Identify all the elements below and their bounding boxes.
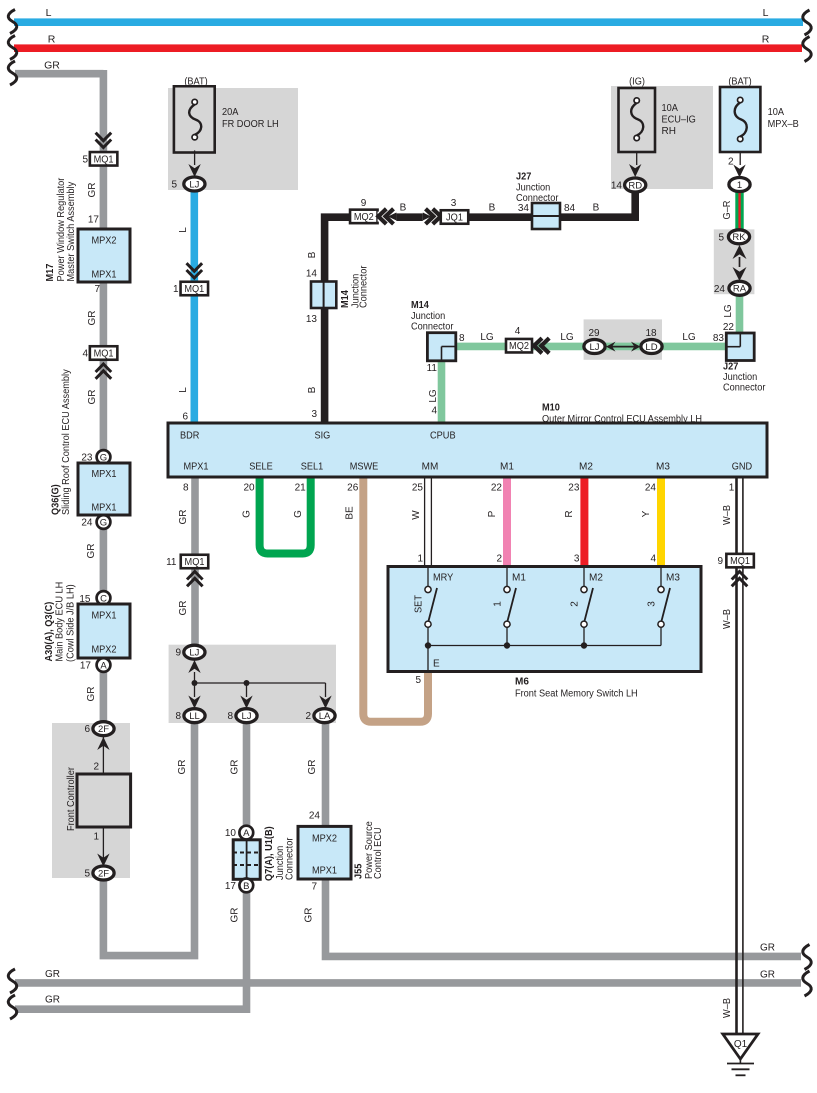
svg-text:7: 7	[94, 284, 100, 295]
svg-text:R: R	[762, 34, 770, 46]
svg-text:25: 25	[412, 483, 424, 494]
svg-text:2: 2	[728, 157, 734, 168]
svg-text:Master Switch Assembly: Master Switch Assembly	[66, 182, 77, 282]
svg-text:1: 1	[737, 180, 742, 191]
svg-text:MPX1: MPX1	[91, 469, 117, 480]
svg-text:Connector: Connector	[359, 265, 370, 308]
svg-text:Front Controller: Front Controller	[66, 766, 77, 831]
svg-text:LD: LD	[645, 342, 657, 353]
svg-text:E: E	[433, 659, 440, 670]
svg-text:GR: GR	[760, 970, 775, 981]
svg-text:W–B: W–B	[722, 505, 733, 525]
svg-text:MQ1: MQ1	[94, 154, 114, 165]
svg-text:1: 1	[493, 601, 504, 607]
svg-text:9: 9	[361, 198, 367, 209]
svg-text:A30(A), Q3(C): A30(A), Q3(C)	[44, 602, 55, 662]
svg-text:17: 17	[80, 661, 92, 672]
svg-text:Outer Mirror Control ECU Assem: Outer Mirror Control ECU Assembly LH	[542, 414, 702, 425]
svg-text:M3: M3	[666, 573, 680, 584]
svg-text:1: 1	[729, 483, 735, 494]
svg-text:SET: SET	[414, 595, 425, 613]
svg-text:24: 24	[309, 811, 321, 822]
svg-text:G: G	[242, 510, 253, 518]
svg-text:SEL1: SEL1	[301, 462, 324, 473]
svg-text:2F: 2F	[98, 724, 109, 735]
svg-text:2: 2	[93, 762, 99, 773]
svg-text:GR: GR	[87, 390, 98, 405]
svg-text:W–B: W–B	[722, 609, 733, 629]
svg-text:10A: 10A	[662, 103, 679, 114]
svg-text:B: B	[593, 203, 600, 214]
svg-text:MQ2: MQ2	[354, 212, 374, 223]
svg-text:Y: Y	[641, 510, 652, 517]
svg-text:7: 7	[311, 882, 317, 893]
svg-text:3: 3	[311, 409, 317, 420]
svg-text:2: 2	[570, 601, 581, 607]
svg-text:J27: J27	[723, 362, 739, 373]
svg-text:8: 8	[175, 711, 181, 722]
svg-text:GR: GR	[178, 601, 189, 616]
svg-text:22: 22	[723, 322, 735, 333]
svg-text:RK: RK	[732, 232, 746, 243]
svg-text:LJ: LJ	[241, 711, 251, 722]
svg-text:G: G	[293, 510, 304, 518]
svg-text:3: 3	[647, 601, 658, 607]
svg-text:M10: M10	[542, 403, 560, 414]
svg-text:5: 5	[415, 675, 421, 686]
svg-text:M3: M3	[656, 462, 670, 473]
svg-text:A: A	[100, 660, 107, 671]
svg-text:LJ: LJ	[189, 179, 199, 190]
svg-text:3: 3	[574, 554, 580, 565]
svg-text:JQ1: JQ1	[446, 213, 463, 224]
svg-text:9: 9	[717, 556, 723, 567]
svg-text:8: 8	[183, 483, 189, 494]
svg-text:RA: RA	[733, 284, 747, 295]
svg-text:GR: GR	[177, 760, 188, 775]
svg-text:J55: J55	[354, 863, 365, 879]
svg-text:GR: GR	[45, 969, 60, 980]
svg-text:LG: LG	[480, 332, 494, 343]
svg-text:G–R: G–R	[722, 201, 733, 220]
svg-text:MQ1: MQ1	[184, 284, 204, 295]
svg-text:LG: LG	[428, 389, 439, 403]
svg-text:11: 11	[166, 557, 177, 568]
svg-text:MPX–B: MPX–B	[768, 119, 799, 130]
svg-text:29: 29	[588, 328, 600, 339]
svg-text:Connector: Connector	[516, 193, 559, 204]
svg-text:LG: LG	[723, 304, 734, 318]
svg-text:B: B	[307, 251, 318, 258]
svg-text:9: 9	[175, 648, 181, 659]
svg-text:3: 3	[451, 198, 457, 209]
svg-text:GR: GR	[307, 760, 318, 775]
svg-text:Connector: Connector	[411, 322, 454, 333]
svg-text:GR: GR	[87, 183, 98, 198]
svg-text:Connector: Connector	[285, 837, 296, 880]
svg-text:M14: M14	[411, 300, 429, 311]
svg-text:1: 1	[173, 284, 179, 295]
svg-text:84: 84	[564, 203, 576, 214]
svg-text:MQ1: MQ1	[94, 349, 114, 360]
svg-text:14: 14	[306, 269, 318, 280]
svg-text:8: 8	[227, 711, 233, 722]
svg-text:GR: GR	[45, 995, 60, 1006]
svg-text:GR: GR	[87, 311, 98, 326]
svg-text:4: 4	[82, 349, 88, 360]
svg-text:MPX2: MPX2	[91, 645, 117, 656]
svg-text:5: 5	[718, 232, 724, 243]
svg-text:GND: GND	[732, 462, 752, 473]
svg-text:LG: LG	[682, 332, 696, 343]
svg-text:LL: LL	[189, 711, 200, 722]
svg-text:22: 22	[491, 483, 503, 494]
svg-text:B: B	[307, 386, 318, 393]
svg-text:5: 5	[171, 180, 177, 191]
svg-text:GR: GR	[86, 544, 97, 559]
svg-text:A: A	[243, 828, 250, 839]
svg-text:14: 14	[611, 181, 623, 192]
svg-text:Front Seat Memory Switch LH: Front Seat Memory Switch LH	[515, 689, 638, 700]
svg-text:GR: GR	[304, 908, 315, 923]
svg-text:4: 4	[650, 554, 656, 565]
svg-text:MM: MM	[422, 462, 439, 473]
svg-text:MRY: MRY	[433, 573, 454, 584]
svg-text:G: G	[100, 517, 107, 528]
svg-text:SIG: SIG	[315, 431, 331, 442]
svg-text:(IG): (IG)	[629, 77, 645, 88]
svg-text:M2: M2	[579, 462, 593, 473]
svg-text:MQ2: MQ2	[509, 341, 529, 352]
svg-text:MSWE: MSWE	[350, 462, 379, 473]
svg-text:13: 13	[306, 314, 318, 325]
svg-text:B: B	[400, 203, 407, 214]
svg-text:8: 8	[459, 333, 465, 344]
svg-text:GR: GR	[760, 943, 775, 954]
svg-text:(BAT): (BAT)	[184, 77, 207, 88]
svg-text:M2: M2	[589, 573, 603, 584]
svg-text:Junction: Junction	[411, 311, 445, 322]
svg-text:MPX1: MPX1	[312, 866, 338, 877]
svg-text:L: L	[763, 7, 769, 19]
svg-text:5: 5	[84, 869, 90, 880]
svg-text:W–B: W–B	[722, 998, 733, 1018]
svg-text:Connector: Connector	[723, 383, 766, 394]
svg-text:4: 4	[515, 326, 521, 337]
svg-text:FR DOOR LH: FR DOOR LH	[222, 119, 279, 130]
svg-text:SELE: SELE	[249, 462, 273, 473]
svg-text:LJ: LJ	[589, 342, 599, 353]
svg-text:L: L	[178, 387, 189, 393]
svg-text:MPX1: MPX1	[91, 503, 117, 514]
svg-text:P: P	[487, 510, 498, 517]
svg-text:M1: M1	[500, 462, 514, 473]
svg-text:Main Body ECU LH: Main Body ECU LH	[55, 582, 66, 662]
svg-text:2: 2	[305, 711, 311, 722]
svg-text:BE: BE	[345, 506, 356, 520]
svg-text:6: 6	[182, 412, 188, 423]
svg-text:5: 5	[82, 154, 88, 165]
svg-text:10: 10	[225, 828, 237, 839]
svg-text:2: 2	[496, 554, 502, 565]
svg-text:1: 1	[93, 832, 99, 843]
svg-text:34: 34	[518, 203, 530, 214]
svg-text:LJ: LJ	[189, 648, 199, 659]
svg-text:20A: 20A	[222, 107, 239, 118]
svg-text:MPX1: MPX1	[91, 270, 117, 281]
svg-text:6: 6	[84, 724, 90, 735]
svg-text:Q36(G): Q36(G)	[51, 484, 62, 515]
svg-text:R: R	[564, 510, 575, 517]
svg-text:RH: RH	[662, 126, 676, 137]
svg-text:MPX1: MPX1	[91, 611, 117, 622]
svg-text:MPX2: MPX2	[91, 236, 117, 247]
svg-text:(Cowl Side J/B LH): (Cowl Side J/B LH)	[66, 584, 77, 662]
svg-text:(BAT): (BAT)	[728, 77, 751, 88]
svg-text:20: 20	[243, 483, 255, 494]
svg-text:L: L	[178, 227, 189, 233]
svg-text:17: 17	[88, 215, 100, 226]
svg-text:24: 24	[645, 483, 657, 494]
svg-text:M17: M17	[45, 263, 56, 281]
svg-text:GR: GR	[230, 908, 241, 923]
svg-text:10A: 10A	[768, 107, 785, 118]
svg-text:2F: 2F	[98, 868, 109, 879]
svg-text:26: 26	[347, 483, 359, 494]
svg-text:24: 24	[81, 518, 93, 529]
svg-text:MPX1: MPX1	[183, 462, 209, 473]
svg-text:MQ1: MQ1	[185, 557, 205, 568]
svg-text:Q1: Q1	[734, 1039, 748, 1050]
svg-text:Sliding Roof Control ECU Assem: Sliding Roof Control ECU Assembly	[61, 369, 72, 515]
svg-text:Q7(A), U1(B): Q7(A), U1(B)	[264, 826, 275, 881]
svg-text:MPX2: MPX2	[312, 834, 338, 845]
svg-text:GR: GR	[86, 687, 97, 702]
svg-text:LG: LG	[560, 332, 574, 343]
svg-text:GR: GR	[230, 760, 241, 775]
svg-text:23: 23	[568, 483, 580, 494]
svg-text:RD: RD	[628, 180, 642, 191]
svg-text:R: R	[48, 34, 56, 46]
svg-text:18: 18	[645, 328, 657, 339]
svg-text:21: 21	[295, 483, 307, 494]
svg-text:M14: M14	[340, 290, 351, 308]
svg-text:83: 83	[713, 333, 725, 344]
svg-text:BDR: BDR	[180, 431, 199, 442]
svg-text:GR: GR	[44, 60, 60, 72]
svg-text:W: W	[411, 510, 422, 520]
svg-text:17: 17	[225, 881, 237, 892]
svg-text:M6: M6	[515, 677, 529, 688]
svg-text:LA: LA	[319, 711, 331, 722]
svg-text:MQ1: MQ1	[730, 556, 750, 567]
svg-text:L: L	[46, 7, 52, 19]
svg-text:24: 24	[714, 284, 726, 295]
svg-text:B: B	[243, 881, 249, 892]
svg-text:GR: GR	[178, 510, 189, 525]
svg-text:ECU–IG: ECU–IG	[662, 115, 697, 126]
svg-text:Junction: Junction	[516, 183, 550, 194]
svg-text:Control ECU: Control ECU	[373, 827, 384, 879]
svg-text:11: 11	[427, 363, 438, 374]
svg-text:M1: M1	[512, 573, 526, 584]
svg-text:J27: J27	[516, 172, 532, 183]
svg-text:CPUB: CPUB	[430, 431, 456, 442]
svg-text:4: 4	[431, 406, 437, 417]
svg-text:B: B	[489, 203, 496, 214]
svg-text:1: 1	[417, 554, 423, 565]
